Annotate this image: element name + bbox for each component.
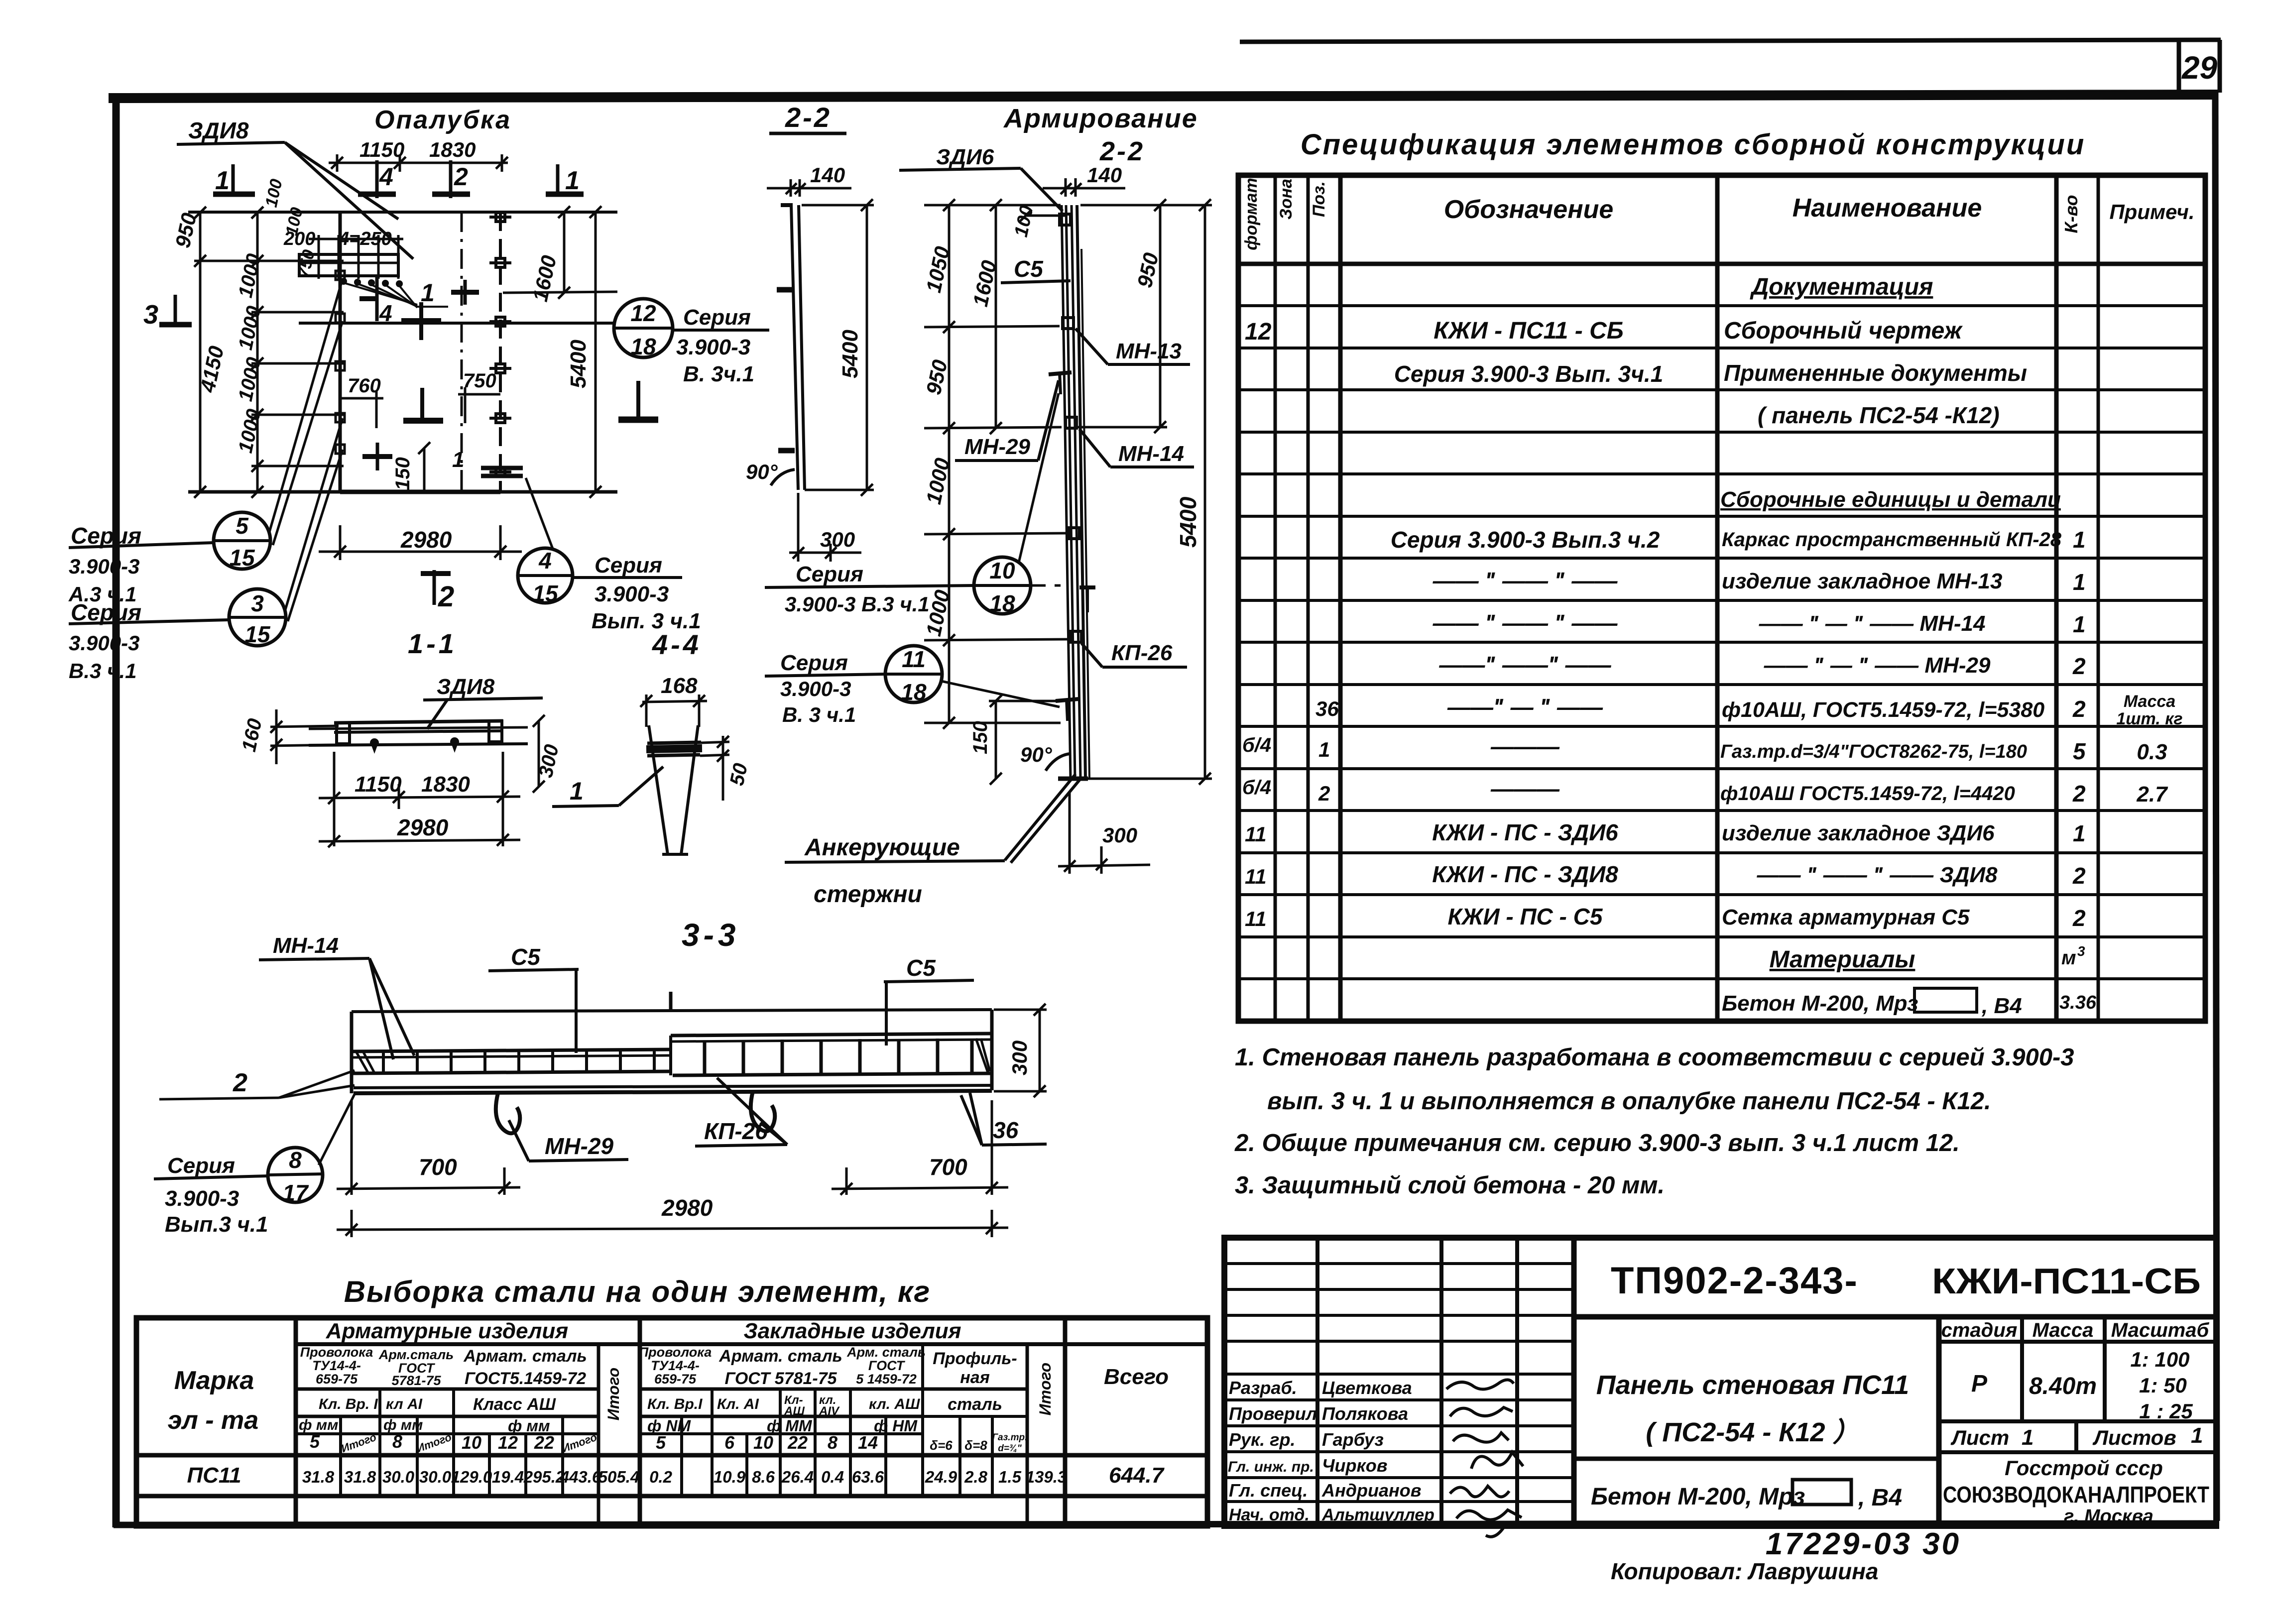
svg-text:КП-26: КП-26 — [704, 1118, 768, 1144]
svg-text:Лист: Лист — [1950, 1426, 2009, 1449]
svg-text:1: 1 — [2191, 1423, 2203, 1448]
right edge marks — [489, 213, 511, 476]
svg-text:26.4: 26.4 — [781, 1468, 814, 1486]
svg-text:Класс АШ: Класс АШ — [473, 1395, 556, 1414]
svg-text:—— ʺ —— ʺ ——: —— ʺ —— ʺ —— — [1433, 568, 1618, 593]
svg-text:Чирков: Чирков — [1322, 1455, 1387, 1476]
svg-text:3.900-3: 3.900-3 — [676, 335, 750, 359]
svg-text:АШ: АШ — [784, 1404, 805, 1418]
svg-text:2: 2 — [454, 163, 468, 191]
svg-text:5781-75: 5781-75 — [391, 1373, 441, 1388]
svg-text:δ=8: δ=8 — [964, 1438, 987, 1453]
svg-text:3.900-3: 3.900-3 — [780, 677, 851, 700]
svg-text:5: 5 — [656, 1432, 666, 1453]
svg-text:Армат. сталь: Армат. сталь — [463, 1347, 587, 1366]
svg-text:2: 2 — [438, 580, 454, 613]
svg-text:31.8: 31.8 — [302, 1468, 335, 1486]
svg-text:КЖИ - ПС11 - СБ: КЖИ - ПС11 - СБ — [1434, 318, 1624, 344]
svg-text:сталь: сталь — [948, 1395, 1002, 1414]
svg-text:К-во: К-во — [2061, 195, 2081, 233]
svg-text:3: 3 — [143, 300, 158, 330]
svg-text:кл. АШ: кл. АШ — [869, 1396, 920, 1412]
svg-text:300: 300 — [1008, 1041, 1031, 1075]
svg-text:КЖИ - ПС - С5: КЖИ - ПС - С5 — [1448, 904, 1603, 929]
svg-text:Масса: Масса — [2124, 692, 2175, 711]
svg-text:—— ʺ —— ʺ ——: —— ʺ —— ʺ —— — [1433, 610, 1618, 636]
svg-text:3.900-3: 3.900-3 — [69, 555, 139, 578]
svg-text:8: 8 — [392, 1431, 402, 1452]
svg-text:——ʺ ——ʺ ——: ——ʺ ——ʺ —— — [1438, 652, 1611, 678]
svg-text:5400: 5400 — [838, 330, 862, 378]
svg-text:139.3: 139.3 — [1026, 1468, 1067, 1486]
svg-text:ГОСТ 5781-75: ГОСТ 5781-75 — [724, 1369, 837, 1388]
svg-text:17229-03 30: 17229-03 30 — [1766, 1527, 1961, 1561]
svg-text:2980: 2980 — [400, 527, 452, 553]
svg-text:3.900-3: 3.900-3 — [69, 631, 139, 655]
svg-text:10: 10 — [989, 558, 1015, 583]
DRAWINGS — [68, 106, 769, 683]
svg-text:1830: 1830 — [429, 138, 476, 161]
svg-text:м: м — [2061, 947, 2076, 969]
svg-text:Поз.: Поз. — [1310, 181, 1328, 217]
svg-text:2.8: 2.8 — [964, 1468, 988, 1486]
section marks 4,2 top; 1 left and right — [213, 160, 584, 198]
anchor diagonal at bottom — [1005, 774, 1088, 863]
svg-text:12: 12 — [630, 300, 656, 326]
svg-text:1. Стеновая панель разра: 1. Стеновая панель разработана в соответ… — [1235, 1044, 2074, 1071]
svg-text:129.0: 129.0 — [451, 1468, 492, 1486]
svg-text:Всего: Всего — [1104, 1365, 1169, 1389]
svg-text:140: 140 — [810, 163, 845, 187]
svg-text:659-75: 659-75 — [654, 1372, 697, 1387]
svg-text:22: 22 — [534, 1432, 554, 1453]
svg-text:( ПС2-54 - К12 ）: ( ПС2-54 - К12 ） — [1646, 1417, 1859, 1447]
circled 10/18 — [765, 393, 1061, 614]
svg-text:Кл. АI: Кл. АI — [717, 1396, 759, 1412]
svg-text:10.9: 10.9 — [714, 1468, 746, 1486]
svg-text:Арм.сталь: Арм.сталь — [378, 1347, 454, 1362]
svg-text:Серия: Серия — [71, 599, 141, 625]
svg-text:Документация: Документация — [1750, 274, 1933, 300]
svg-text:1150: 1150 — [355, 772, 402, 797]
svg-text:Профиль-: Профиль- — [933, 1349, 1017, 1368]
svg-text:ЗДИ6: ЗДИ6 — [936, 145, 994, 169]
svg-text:300: 300 — [1102, 823, 1137, 847]
svg-text:МН-14: МН-14 — [273, 933, 339, 958]
svg-text:ГОСТ: ГОСТ — [868, 1358, 906, 1373]
svg-text:5: 5 — [310, 1431, 320, 1452]
svg-text:—— ʺ —— ʺ —— ЗДИ8: —— ʺ —— ʺ —— ЗДИ8 — [1756, 863, 1998, 887]
svg-text:10: 10 — [462, 1432, 481, 1453]
svg-text:50: 50 — [726, 761, 752, 788]
svg-text:1: 1 — [452, 448, 464, 472]
svg-text:ЗДИ8: ЗДИ8 — [188, 117, 249, 143]
svg-text:1-1: 1-1 — [408, 628, 457, 659]
svg-text:d=¾": d=¾" — [998, 1443, 1022, 1454]
svg-text:Серия: Серия — [595, 553, 662, 578]
svg-text:СОЮЗВОДОКАНАЛПРОЕКТ: СОЮЗВОДОКАНАЛПРОЕКТ — [1943, 1482, 2209, 1508]
svg-text:Арм. сталь: Арм. сталь — [846, 1345, 926, 1360]
svg-text:12: 12 — [498, 1432, 518, 1453]
circled 8/17 + Серия — [154, 1094, 355, 1202]
svg-text:стадия: стадия — [1941, 1319, 2018, 1341]
svg-text:Гл. спец.: Гл. спец. — [1229, 1480, 1308, 1501]
svg-text:22: 22 — [787, 1432, 808, 1453]
svg-text:С5: С5 — [906, 955, 936, 981]
svg-text:8: 8 — [289, 1147, 302, 1173]
svg-text:2: 2 — [2072, 696, 2086, 722]
svg-text:14: 14 — [858, 1432, 878, 1453]
svg-text:36: 36 — [1315, 697, 1339, 720]
svg-text:12: 12 — [1245, 319, 1272, 345]
svg-text:2: 2 — [2072, 905, 2086, 931]
svg-text:1150: 1150 — [359, 138, 404, 161]
svg-text:—— ʺ — ʺ —— МН-14: —— ʺ — ʺ —— МН-14 — [1759, 611, 1986, 636]
svg-text:5400: 5400 — [1175, 496, 1201, 548]
panel rectangle — [188, 212, 617, 492]
svg-text:, В4: , В4 — [1858, 1485, 1902, 1511]
svg-text:Серия: Серия — [780, 651, 848, 675]
svg-text:8.40т: 8.40т — [2029, 1373, 2097, 1399]
left edge small squares — [336, 271, 345, 454]
svg-text:ная: ная — [960, 1368, 989, 1387]
svg-text:1 : 25: 1 : 25 — [2139, 1399, 2193, 1423]
svg-text:Нач. отд.: Нач. отд. — [1229, 1506, 1310, 1524]
svg-text:ф мм: ф мм — [383, 1417, 423, 1433]
svg-text:Каркас пространственный КП-28: Каркас пространственный КП-28 — [1722, 529, 2062, 551]
svg-text:1: 1 — [2073, 820, 2086, 846]
svg-text:Серия: Серия — [71, 523, 141, 549]
svg-text:Цветкова: Цветкова — [1322, 1378, 1412, 1398]
svg-text:———: ——— — [1490, 776, 1560, 802]
svg-text:Полякова: Полякова — [1322, 1403, 1408, 1424]
svg-text:90°: 90° — [1020, 743, 1053, 766]
150 dim — [989, 695, 1058, 785]
svg-text:стержни: стержни — [814, 881, 922, 908]
svg-text:Примеч.: Примеч. — [2109, 200, 2194, 224]
svg-text:30.0: 30.0 — [382, 1468, 415, 1486]
svg-text:2: 2 — [233, 1068, 247, 1097]
svg-text:11: 11 — [1245, 865, 1267, 888]
svg-text:Р: Р — [1971, 1371, 1988, 1397]
svg-text:5 1459-72: 5 1459-72 — [856, 1372, 917, 1387]
svg-text:1.5: 1.5 — [998, 1468, 1022, 1486]
svg-text:1: 1 — [2022, 1425, 2033, 1450]
svg-text:Рук. гр.: Рук. гр. — [1229, 1429, 1296, 1450]
svg-text:1: 50: 1: 50 — [2139, 1374, 2187, 1397]
svg-text:В. 3ч.1: В. 3ч.1 — [683, 362, 754, 386]
svg-text:Кл. Вр.I: Кл. Вр.I — [647, 1396, 703, 1412]
NOTES — [1234, 1044, 2074, 1199]
svg-text:3. Защитный слой бетон: 3. Защитный слой бетона - 20 мм. — [1235, 1172, 1665, 1199]
svg-text:6: 6 — [724, 1432, 735, 1453]
svg-text:24.9: 24.9 — [925, 1468, 957, 1486]
svg-text:В. 3 ч.1: В. 3 ч.1 — [782, 703, 856, 726]
svg-text:750: 750 — [463, 370, 496, 392]
svg-text:5400: 5400 — [566, 340, 591, 388]
svg-text:ф10АШ, ГОСТ5.1459-72, l=5380: ф10АШ, ГОСТ5.1459-72, l=5380 — [1722, 698, 2044, 722]
right 950 dim — [1078, 199, 1167, 433]
circled 5/15 + 3/15 with texts — [69, 279, 343, 646]
svg-text:б/4: б/4 — [1242, 734, 1271, 756]
svg-text:С5: С5 — [1014, 256, 1044, 282]
svg-text:Листов: Листов — [2092, 1426, 2176, 1449]
svg-text:формат: формат — [1242, 178, 1261, 250]
svg-text:Арматурные изделия: Арматурные изделия — [326, 1319, 569, 1343]
svg-text:КЖИ - ПС - ЗДИ8: КЖИ - ПС - ЗДИ8 — [1432, 861, 1618, 887]
svg-text:Панель стеновая ПС11: Панель стеновая ПС11 — [1596, 1370, 1909, 1400]
svg-text:Проволока: Проволока — [300, 1345, 373, 1360]
svg-text:КЖИ-ПС11-СБ: КЖИ-ПС11-СБ — [1932, 1262, 2201, 1301]
svg-text:150: 150 — [392, 457, 414, 490]
svg-text:Сетка арматурная С5: Сетка арматурная С5 — [1722, 905, 1970, 929]
svg-text:Зона: Зона — [1277, 179, 1296, 220]
1600 and 100 dims — [990, 199, 1066, 434]
svg-text:С5: С5 — [511, 944, 541, 970]
svg-text:17: 17 — [282, 1180, 309, 1206]
svg-text:Гл. инж. пр.: Гл. инж. пр. — [1228, 1459, 1314, 1475]
svg-text:г. Москва: г. Москва — [2064, 1506, 2153, 1527]
svg-text:1: 1 — [2073, 569, 2086, 595]
svg-text:168: 168 — [661, 674, 698, 698]
svg-text:Сборочный чертеж: Сборочный чертеж — [1724, 318, 1963, 344]
svg-text:МН-29: МН-29 — [964, 435, 1031, 459]
embed marks on element — [1049, 214, 1095, 721]
svg-text:0.3: 0.3 — [2137, 740, 2167, 764]
svg-text:Спецификация элементов: Спецификация элементов сборной конструкц… — [1301, 128, 2086, 161]
svg-text:Альтшуллер: Альтшуллер — [1321, 1506, 1434, 1524]
svg-text:15: 15 — [229, 545, 255, 571]
svg-text:1: 1 — [565, 166, 580, 195]
svg-text:ГОСТ5.1459-72: ГОСТ5.1459-72 — [465, 1369, 586, 1388]
svg-text:Вып.3 ч.1: Вып.3 ч.1 — [165, 1212, 268, 1237]
svg-text:кл АI: кл АI — [386, 1396, 423, 1412]
svg-text:———: ——— — [1490, 733, 1560, 759]
left dim columns — [194, 207, 344, 498]
element: bundle of near-vertical lines — [1062, 205, 1089, 779]
svg-text:140: 140 — [1087, 163, 1122, 187]
svg-text:Марка: Марка — [174, 1366, 254, 1395]
svg-text:изделие закладное ЗДИ6: изделие закладное ЗДИ6 — [1722, 821, 1995, 845]
svg-text:—— ʺ — ʺ —— МН-29: —— ʺ — ʺ —— МН-29 — [1764, 653, 1991, 678]
svg-text:ф НМ: ф НМ — [874, 1417, 918, 1435]
svg-text:18: 18 — [989, 590, 1015, 616]
svg-text:Копировал: Лаврушина: Копировал: Лаврушина — [1611, 1558, 1878, 1584]
svg-text:63.6: 63.6 — [852, 1468, 884, 1486]
svg-text:Армирование: Армирование — [1003, 104, 1198, 133]
svg-text:Примененные документы: Примененные документы — [1724, 360, 2027, 386]
svg-text:ф10АШ ГОСТ5.1459-72, l=4420: ф10АШ ГОСТ5.1459-72, l=4420 — [1720, 783, 2015, 805]
svg-text:ПС11: ПС11 — [187, 1463, 241, 1488]
svg-text:Газ.тр.d=3/4"ГОСТ8262-75, l=18: Газ.тр.d=3/4"ГОСТ8262-75, l=180 — [1720, 741, 2027, 762]
svg-text:ТУ14-4-: ТУ14-4- — [312, 1358, 361, 1373]
left lattice strip — [352, 1049, 671, 1051]
svg-text:3.900-3: 3.900-3 — [165, 1186, 239, 1211]
5400 dim right — [1080, 199, 1212, 785]
lattice verticals left — [383, 1049, 654, 1072]
svg-text:ЗДИ8: ЗДИ8 — [437, 675, 495, 699]
svg-text:150: 150 — [969, 721, 991, 754]
svg-text:Серия: Серия — [683, 305, 751, 330]
svg-text:Газ.тр.: Газ.тр. — [992, 1432, 1028, 1443]
svg-text:4: 4 — [379, 163, 393, 191]
svg-text:15: 15 — [244, 621, 271, 647]
svg-text:700: 700 — [929, 1154, 967, 1180]
svg-text:вып. 3 ч. 1 и выполняется: вып. 3 ч. 1 и выполняется в опалубке пан… — [1267, 1088, 1991, 1115]
svg-text:2980: 2980 — [397, 814, 449, 840]
svg-text:1: 100: 1: 100 — [2130, 1348, 2189, 1371]
circled 11/18 — [765, 646, 1060, 707]
svg-text:ТУ14-4-: ТУ14-4- — [651, 1358, 700, 1373]
svg-text:Госстрой ссср: Госстрой ссср — [2005, 1456, 2163, 1480]
svg-text:443.6: 443.6 — [560, 1468, 601, 1486]
signatures — [1446, 1380, 1523, 1536]
svg-text:Итого: Итого — [604, 1368, 622, 1420]
section 2 mark below — [421, 570, 451, 605]
svg-text:Бетон М-200, Мрз: Бетон М-200, Мрз — [1722, 991, 1918, 1016]
edge hatch details — [356, 1039, 990, 1073]
svg-text:2. Общие примечания см: 2. Общие примечания см. серию 3.900-3 вы… — [1234, 1130, 1960, 1157]
svg-text:31.8: 31.8 — [344, 1468, 376, 1486]
svg-text:Выборка стали на один: Выборка стали на один элемент, кг — [344, 1275, 931, 1308]
svg-text:295.2: 295.2 — [523, 1468, 565, 1486]
svg-text:11: 11 — [1245, 822, 1267, 846]
svg-text:30.0: 30.0 — [419, 1468, 452, 1486]
svg-text:Армат. сталь: Армат. сталь — [718, 1347, 842, 1366]
svg-text:505.4: 505.4 — [598, 1468, 640, 1486]
svg-text:Серия: Серия — [796, 562, 863, 586]
svg-text:659-75: 659-75 — [316, 1372, 358, 1387]
dots row + leaders to label 1 — [340, 278, 403, 287]
TITLE BLOCK — [1224, 1238, 2216, 1526]
left dim column — [924, 199, 1069, 729]
svg-text:Материалы: Материалы — [1770, 946, 1915, 973]
circled 4/15 with texts — [518, 478, 682, 603]
svg-text:11: 11 — [1245, 907, 1267, 930]
svg-text:Серия: Серия — [167, 1154, 235, 1178]
svg-text:ТП902-2-343-: ТП902-2-343- — [1611, 1260, 1858, 1302]
right raised strip — [671, 1034, 992, 1036]
bar body — [352, 1010, 992, 1093]
element — [646, 725, 702, 854]
svg-text:МН-29: МН-29 — [545, 1133, 613, 1159]
svg-text:18: 18 — [901, 679, 927, 705]
svg-text:Наименование: Наименование — [1793, 194, 1982, 223]
svg-text:Серия 3.900-3 Вып. 3ч.1: Серия 3.900-3 Вып. 3ч.1 — [1394, 361, 1664, 387]
svg-text:4=250: 4=250 — [338, 229, 392, 249]
lattice verticals right — [705, 1039, 972, 1074]
svg-text:3.900-3: 3.900-3 — [595, 582, 669, 606]
svg-text:б/4: б/4 — [1242, 777, 1271, 799]
svg-text:Обозначение: Обозначение — [1444, 195, 1614, 224]
svg-text:эл - та: эл - та — [168, 1406, 258, 1435]
element — [777, 205, 805, 490]
svg-text:Сборочные единицы и детали: Сборочные единицы и детали — [1720, 487, 2061, 512]
svg-text:8.6: 8.6 — [752, 1468, 775, 1486]
svg-text:0.2: 0.2 — [649, 1468, 673, 1486]
svg-text:2.7: 2.7 — [2136, 782, 2168, 807]
svg-text:Проверил: Проверил — [1229, 1403, 1317, 1424]
svg-text:5: 5 — [2073, 738, 2086, 764]
svg-text:4-4: 4-4 — [652, 629, 702, 660]
svg-text:36: 36 — [993, 1117, 1019, 1143]
svg-text:1: 1 — [1318, 738, 1330, 761]
svg-text:МН-13: МН-13 — [1116, 339, 1182, 363]
svg-text:2: 2 — [1318, 782, 1330, 805]
verticals — [339, 1416, 342, 1496]
svg-text:29: 29 — [2181, 50, 2218, 86]
svg-text:Анкерующие: Анкерующие — [804, 834, 960, 861]
svg-text:изделие закладное МН-13: изделие закладное МН-13 — [1722, 569, 2002, 593]
circled 12/18 with leader — [299, 299, 769, 357]
svg-text:1: 1 — [570, 777, 584, 805]
svg-text:2-2: 2-2 — [1099, 136, 1145, 166]
svg-text:Опалубка: Опалубка — [374, 106, 511, 134]
svg-text:МН-14: МН-14 — [1118, 442, 1184, 466]
svg-text:Закладные изделия: Закладные изделия — [743, 1319, 961, 1343]
crosses and marks inside — [359, 276, 658, 476]
bar — [309, 721, 528, 745]
svg-text:3.36: 3.36 — [2059, 992, 2097, 1013]
svg-text:Проволока: Проволока — [639, 1345, 712, 1360]
svg-text:3: 3 — [251, 590, 264, 616]
svg-text:( панель ПС2-54 -К12): ( панель ПС2-54 -К12) — [1758, 402, 2000, 428]
svg-text:δ=6: δ=6 — [930, 1438, 953, 1453]
svg-text:1: 1 — [2073, 611, 2086, 637]
svg-text:644.7: 644.7 — [1109, 1463, 1165, 1488]
svg-text:Серия 3.900-3 Вып.3 ч.2: Серия 3.900-3 Вып.3 ч.2 — [1391, 527, 1660, 553]
svg-text:Кл. Вр. I: Кл. Вр. I — [319, 1396, 378, 1412]
svg-text:3.900-3 В.3 ч.1: 3.900-3 В.3 ч.1 — [785, 592, 930, 616]
svg-text:ф NМ: ф NМ — [647, 1417, 691, 1435]
svg-text:Масштаб: Масштаб — [2111, 1319, 2210, 1341]
svg-text:2: 2 — [2072, 781, 2086, 807]
svg-text:Бетон М-200, Мрз: Бетон М-200, Мрз — [1591, 1484, 1805, 1510]
svg-text:2: 2 — [2072, 653, 2086, 679]
svg-text:1шт. кг: 1шт. кг — [2116, 709, 2182, 728]
svg-text:В.3 ч.1: В.3 ч.1 — [69, 659, 137, 683]
svg-text:КЖИ - ПС - ЗДИ6: КЖИ - ПС - ЗДИ6 — [1432, 819, 1618, 845]
embedded strip detail top — [299, 235, 403, 279]
svg-text:11: 11 — [902, 646, 926, 672]
svg-text:Разраб.: Разраб. — [1229, 1378, 1297, 1398]
svg-text:10: 10 — [753, 1432, 773, 1453]
svg-text:2-2: 2-2 — [785, 102, 832, 133]
svg-text:3-3: 3-3 — [682, 917, 740, 953]
svg-text:2: 2 — [2072, 863, 2086, 889]
svg-text:АIV: АIV — [819, 1404, 840, 1418]
svg-text:, В4: , В4 — [1981, 994, 2022, 1018]
svg-text:Гарбуз: Гарбуз — [1322, 1429, 1384, 1450]
svg-text:——ʺ — ʺ ——: ——ʺ — ʺ —— — [1447, 694, 1603, 720]
svg-text:5: 5 — [236, 513, 249, 539]
svg-text:8: 8 — [828, 1432, 837, 1453]
svg-text:2980: 2980 — [661, 1195, 713, 1221]
svg-text:300: 300 — [820, 528, 855, 551]
hooks — [496, 1091, 775, 1133]
svg-text:0.4: 0.4 — [821, 1468, 844, 1486]
svg-text:Андрианов: Андрианов — [1321, 1480, 1421, 1501]
svg-text:700: 700 — [419, 1154, 457, 1180]
svg-text:Итого: Итого — [1036, 1363, 1054, 1415]
svg-text:1: 1 — [215, 166, 230, 195]
header inner horizontals — [296, 1388, 598, 1391]
svg-text:19.4: 19.4 — [492, 1468, 524, 1486]
svg-text:КП-26: КП-26 — [1111, 641, 1173, 665]
svg-text:15: 15 — [532, 580, 559, 606]
svg-text:Масса: Масса — [2032, 1319, 2094, 1341]
svg-text:1830: 1830 — [421, 772, 470, 797]
